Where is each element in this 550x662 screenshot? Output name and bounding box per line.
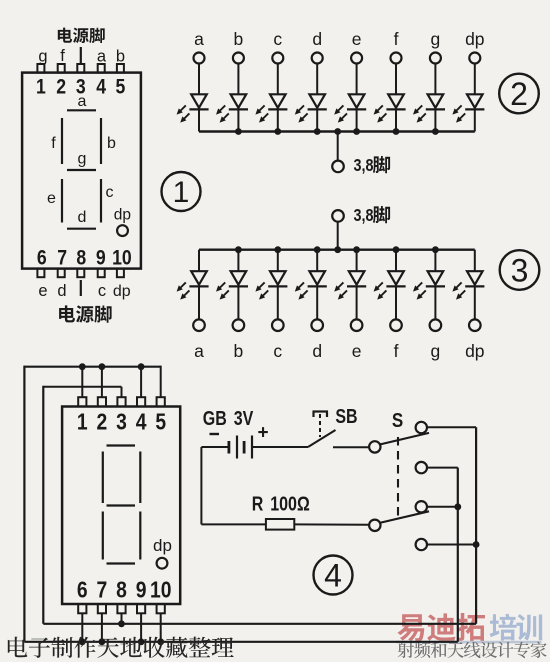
DS2 pin 5 lead square	[157, 397, 165, 406]
top bus wire (segment pins 1,2,4,5)	[24, 366, 160, 368]
svg-text:e: e	[352, 341, 362, 361]
DS2 digit segment d	[107, 562, 136, 564]
watermark underline	[397, 641, 542, 644]
DS2 digit segment a	[107, 444, 136, 446]
SB label	[335, 405, 357, 427]
svg-text:dp: dp	[114, 207, 131, 224]
svg-text:c: c	[98, 282, 106, 300]
wire pin7 to bottom bus	[101, 613, 103, 642]
svg-text:c: c	[106, 184, 114, 201]
wire pin8 to common bus	[121, 613, 123, 624]
DS2 digit segment g	[107, 504, 136, 506]
left outer vertical wire (segments net)	[23, 366, 25, 642]
junction dot on anode bus	[235, 246, 242, 253]
LED a with terminal (diagram 3)	[177, 250, 209, 331]
caption 电子制作天地收藏整理	[8, 637, 234, 658]
junction dot pin10/bottom bus	[157, 638, 164, 645]
DS2 pin 9 lead square	[137, 604, 145, 613]
junction dot pin4/top bus	[138, 363, 145, 370]
svg-text:2: 2	[97, 410, 108, 435]
dp label	[114, 207, 131, 224]
junction dot on anode bus	[393, 246, 400, 253]
switch S blade 1	[380, 433, 429, 445]
junction dot on anode bus	[432, 246, 439, 253]
watermark subtitle 射频和天线设计专家	[398, 642, 547, 658]
resistor R 100ohm body	[266, 519, 294, 530]
LED e with terminal (diagram 3)	[334, 250, 366, 331]
wire SB to switch pole 1	[333, 446, 369, 448]
pin name labels g f a b (top row)	[38, 47, 125, 66]
DS2 digit segment e	[102, 512, 104, 560]
common terminal 3,8 pin (diagram 3)	[332, 210, 344, 250]
switch S gang link (dashed)	[397, 437, 399, 521]
DS2 pin 4 lead square	[137, 397, 145, 406]
segment e label	[47, 190, 56, 207]
LED f with terminal (diagram 2)	[374, 53, 406, 132]
junction dot pin6/bottom bus	[79, 638, 86, 645]
junction dot pin8/common bus	[118, 620, 125, 627]
junction dot on cathode bus	[353, 128, 360, 135]
svg-text:b: b	[234, 341, 244, 361]
svg-text:a: a	[97, 48, 107, 66]
LED b with terminal (diagram 3)	[216, 250, 248, 331]
wire pin9 to bottom bus	[140, 613, 142, 642]
svg-text:c: c	[273, 341, 282, 361]
DS2 digit segment b	[139, 452, 141, 504]
switch S label	[392, 409, 403, 432]
svg-text:9: 9	[136, 578, 147, 603]
anode bus wire (diagram 3)	[199, 248, 475, 250]
diagram number 3	[500, 250, 540, 290]
LED dp with terminal (diagram 3)	[452, 250, 484, 331]
wire pin2 to top bus	[101, 367, 103, 398]
pin 9 lead square	[98, 269, 105, 278]
diagram number 4	[314, 556, 353, 595]
svg-text:1: 1	[77, 410, 88, 435]
svg-text:b: b	[234, 29, 244, 49]
pin 5 lead square	[117, 64, 124, 73]
svg-text:e: e	[38, 282, 47, 300]
segment g	[67, 169, 96, 171]
junction dot on cathode bus	[274, 128, 281, 135]
cathode bus wire (diagram 2)	[199, 130, 475, 132]
svg-text:g: g	[78, 151, 87, 168]
DS2 pin 8 lead square	[117, 604, 125, 613]
svg-text:2: 2	[510, 76, 528, 112]
svg-text:g: g	[431, 29, 441, 49]
label: bottom power-pin text 电源脚	[59, 305, 112, 322]
pin 1 lead square	[37, 64, 44, 73]
label: top power-pin text 电源脚	[58, 28, 105, 43]
diagram number 2	[499, 74, 539, 114]
svg-text:2: 2	[56, 75, 66, 99]
svg-text:3,8: 3,8	[354, 206, 374, 226]
svg-text:d: d	[312, 29, 322, 49]
segment f	[61, 118, 63, 164]
svg-text:3: 3	[116, 410, 127, 435]
DS2 pin 7 lead square	[98, 604, 106, 613]
wire contact2 to right inner vertical	[427, 467, 458, 469]
pin 4 lead square	[98, 64, 105, 73]
svg-text:c: c	[273, 29, 282, 49]
LED g with terminal (diagram 2)	[413, 53, 445, 132]
pin 10 lead square	[117, 269, 124, 278]
svg-text:4: 4	[96, 75, 106, 99]
svg-text:4: 4	[136, 410, 147, 435]
svg-text:1: 1	[173, 176, 190, 209]
junction dot at common stub	[334, 128, 341, 135]
svg-text:f: f	[51, 135, 56, 152]
segment e	[61, 179, 63, 223]
svg-text:f: f	[60, 47, 65, 65]
svg-text:a: a	[194, 29, 204, 49]
svg-text:d: d	[312, 341, 322, 361]
pin 7 lead square	[58, 269, 65, 278]
svg-text:7: 7	[97, 578, 108, 603]
svg-text:b: b	[116, 48, 125, 66]
DS2 pin 10 lead square	[157, 604, 165, 613]
LED dp with terminal (diagram 2)	[452, 53, 484, 132]
svg-text:g: g	[38, 48, 47, 66]
push button SB contact blade	[308, 430, 336, 447]
wire left vertical to resistor	[201, 523, 266, 525]
svg-text:d: d	[78, 209, 87, 226]
wire contact4 to right outer vertical	[427, 544, 476, 546]
junction dot contact4/right outer vertical	[473, 541, 480, 548]
svg-text:g: g	[431, 341, 441, 361]
svg-text:dp: dp	[465, 29, 484, 49]
junction dot on cathode bus	[314, 128, 321, 135]
svg-text:5: 5	[155, 410, 166, 435]
svg-text:b: b	[107, 135, 116, 152]
common-pin tick above pin 3	[80, 47, 82, 64]
pin numbers 1-5	[36, 75, 126, 99]
segment c	[100, 179, 102, 223]
label 3,8脚 (diagram 2)	[354, 156, 391, 176]
wire pin5 to top bus (corner)	[160, 366, 162, 398]
LED f with terminal (diagram 3)	[374, 250, 406, 331]
svg-text:d: d	[57, 282, 66, 300]
left inner vertical wire (common net)	[42, 386, 44, 624]
junction dot on anode bus	[274, 246, 281, 253]
battery polarity marks	[210, 423, 269, 444]
watermark text 易迪拓培训	[398, 613, 543, 641]
segment c label	[106, 184, 114, 201]
LED a with terminal (diagram 2)	[177, 53, 209, 132]
wire battery positive to push button SB	[252, 446, 308, 448]
terminal name labels a-dp (bottom)	[194, 341, 484, 361]
segment a	[67, 109, 96, 111]
segment a label	[78, 93, 87, 110]
svg-text:6: 6	[37, 246, 47, 270]
junction dot pin1/top bus	[79, 363, 86, 370]
switch S pole 1	[369, 441, 380, 452]
wire contact3 to right inner vertical	[427, 506, 458, 508]
segment f label	[51, 135, 56, 152]
junction dot on cathode bus	[393, 128, 400, 135]
LED d with terminal (diagram 2)	[295, 53, 327, 132]
switch S contact 3	[416, 501, 427, 512]
junction dot on anode bus	[353, 246, 360, 253]
battery GB 3V cells	[229, 436, 252, 459]
segment d label	[78, 209, 87, 226]
svg-text:dp: dp	[465, 341, 484, 361]
pin 8 lead square	[77, 269, 84, 278]
switch S blade 2	[380, 511, 429, 523]
svg-text:f: f	[394, 29, 399, 49]
junction dot on cathode bus	[432, 128, 439, 135]
wire pin4 to top bus	[140, 367, 142, 398]
svg-text:3: 3	[511, 253, 529, 289]
svg-text:e: e	[47, 190, 56, 207]
switch S contact 2	[416, 462, 427, 473]
switch S pole 2	[369, 520, 380, 531]
svg-text:5: 5	[115, 75, 125, 99]
wire battery negative to left vertical	[201, 446, 229, 448]
resistor R label	[252, 493, 310, 515]
decimal point dp	[117, 225, 128, 236]
DS2 pin 6 lead square	[78, 604, 86, 613]
junction dot contact3/right inner vertical	[454, 503, 461, 510]
svg-text:4: 4	[324, 558, 342, 594]
terminal name labels a-dp (top)	[194, 29, 484, 49]
LED g with terminal (diagram 3)	[413, 250, 445, 331]
svg-text:1: 1	[36, 75, 46, 99]
svg-text:100Ω: 100Ω	[270, 493, 310, 515]
DS2 pin 2 lead square	[98, 397, 106, 406]
svg-text:8: 8	[116, 578, 127, 603]
wire pin10 to bottom bus	[160, 613, 162, 642]
DS2 pin 1 lead square	[78, 397, 86, 406]
svg-text:9: 9	[96, 246, 106, 270]
pin 3 lead square	[77, 64, 84, 73]
svg-text:a: a	[78, 93, 87, 110]
display body DS1 outline	[22, 73, 141, 269]
pin numbers 6-10	[37, 246, 132, 270]
DS2 dp label	[153, 536, 172, 555]
svg-text:3V: 3V	[234, 407, 254, 429]
common wire to pin 3	[43, 387, 121, 397]
junction dot on anode bus	[314, 246, 321, 253]
DS2 pin 3 lead square	[117, 397, 125, 406]
svg-text:GB: GB	[203, 407, 227, 429]
svg-text:dp: dp	[153, 536, 172, 555]
right inner vertical wire (contacts 2,3)	[457, 468, 459, 642]
junction dot pin2/top bus	[99, 363, 106, 370]
right outer vertical wire (contacts 1,4)	[475, 427, 477, 624]
battery GB label	[203, 407, 253, 429]
left loop vertical (battery to resistor)	[200, 447, 202, 524]
DS2 pin numbers 1-5	[77, 410, 166, 435]
wire contact1 to right outer vertical	[427, 426, 476, 428]
LED c with terminal (diagram 2)	[255, 53, 287, 132]
svg-text:6: 6	[77, 578, 88, 603]
display DS2 body outline	[62, 407, 180, 605]
svg-text:a: a	[194, 341, 204, 361]
svg-text:R: R	[252, 493, 264, 515]
svg-text:+: +	[257, 423, 268, 444]
segment d	[67, 228, 96, 230]
LED e with terminal (diagram 2)	[334, 53, 366, 132]
wire resistor to switch pole 2	[294, 523, 369, 525]
diagram number 1	[162, 172, 201, 211]
svg-text:S: S	[392, 409, 403, 432]
svg-text:10: 10	[112, 246, 132, 270]
svg-text:8: 8	[76, 246, 86, 270]
svg-text:10: 10	[150, 578, 171, 603]
pin name labels e d c dp (bottom row)	[38, 282, 130, 300]
svg-text:SB: SB	[335, 405, 357, 427]
push button SB actuator (dashed)	[319, 414, 321, 437]
svg-text:f: f	[394, 341, 399, 361]
LED b with terminal (diagram 2)	[216, 53, 248, 132]
label 3,8脚 (diagram 3)	[354, 206, 391, 226]
pin 2 lead square	[58, 64, 65, 73]
svg-text:7: 7	[57, 246, 67, 270]
LED d with terminal (diagram 3)	[295, 250, 327, 331]
common-pin tick below pin 8	[80, 280, 82, 296]
DS2 decimal point	[157, 558, 168, 569]
segment b	[100, 118, 102, 164]
junction dot on cathode bus	[235, 128, 242, 135]
junction dot pin7/bottom bus	[99, 638, 106, 645]
svg-text:dp: dp	[113, 283, 131, 300]
DS2 digit segment c	[139, 512, 141, 560]
junction dot at common stub (diagram 3)	[334, 246, 341, 253]
junction dot pin9/bottom bus	[138, 638, 145, 645]
svg-text:e: e	[352, 29, 362, 49]
DS2 digit segment f	[102, 452, 104, 504]
segment b label	[107, 135, 116, 152]
DS2 pin numbers 6-10	[77, 578, 172, 603]
bottom bus wire (segment pins)	[24, 641, 457, 643]
common terminal 3,8 pin (diagram 2)	[332, 132, 344, 173]
pin 6 lead square	[37, 269, 44, 278]
switch S contact 1	[416, 422, 427, 433]
LED c with terminal (diagram 3)	[255, 250, 287, 331]
push button SB cap	[313, 412, 329, 418]
segment g label	[78, 151, 87, 168]
wire pin1 to top bus	[81, 367, 83, 398]
switch S contact 4	[416, 539, 427, 550]
svg-text:3,8: 3,8	[354, 156, 374, 176]
wire pin6 to bottom bus	[81, 613, 83, 642]
common bus wire (pins 3,8)	[43, 623, 476, 625]
